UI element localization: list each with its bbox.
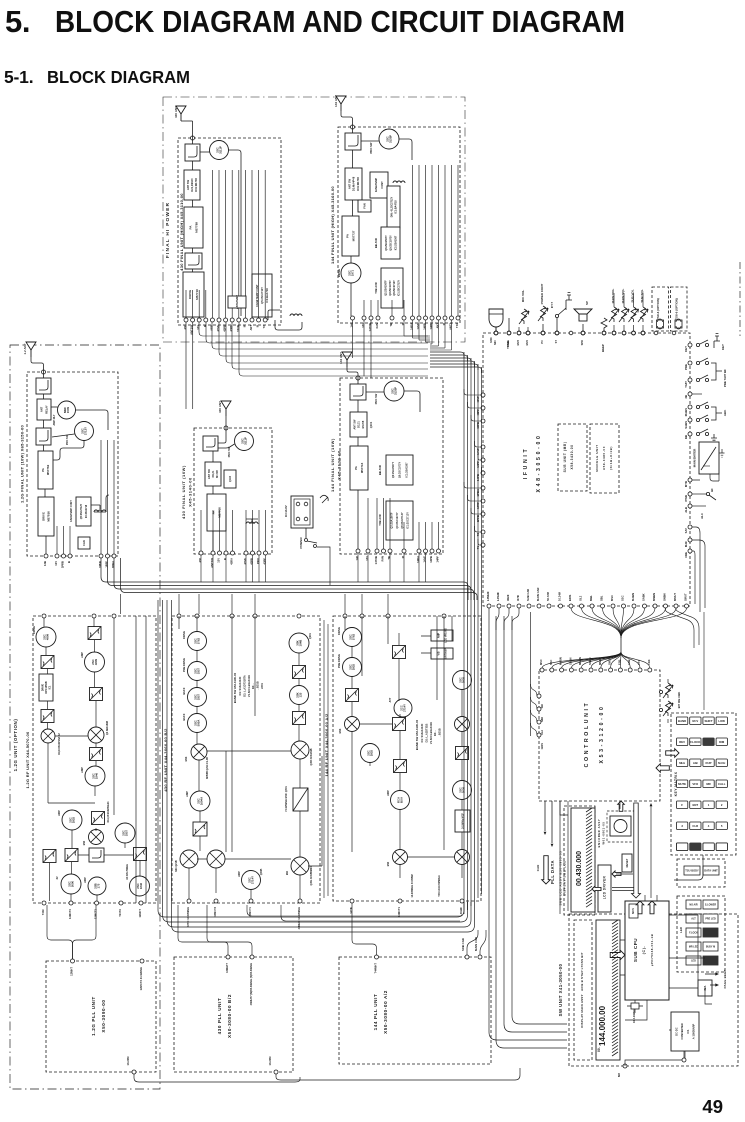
arrow BEEP <box>715 983 719 986</box>
svg-text:MAIN VOL: MAIN VOL <box>611 289 615 304</box>
mixer 430rf b1 <box>180 850 198 868</box>
wires finals high terminals down <box>199 322 428 376</box>
module 1.2G FINAL UNIT 10W X65-3150-00 <box>27 372 118 556</box>
amp 2SC5090 Q1B <box>61 874 81 894</box>
terminals 144 RF top <box>343 614 446 618</box>
svg-text:14PF: 14PF <box>429 323 433 330</box>
svg-text:P.T.T: P.T.T <box>550 302 554 308</box>
svg-text:2714Y: 2714Y <box>403 704 407 712</box>
svg-text:3111P: 3111P <box>219 146 223 154</box>
terminal MV2 <box>526 331 530 335</box>
svg-text:3357: 3357 <box>197 693 201 700</box>
svg-text:TX2: TX2 <box>455 323 459 328</box>
svg-text:430: 430 <box>198 557 202 562</box>
amp 430rf right 1 <box>289 633 309 653</box>
svg-text:MIX: MIX <box>387 861 390 866</box>
svg-text:43VF: 43VF <box>243 558 247 565</box>
svg-text:43RA: 43RA <box>230 558 234 565</box>
svg-text:144 ANT: 144 ANT <box>339 352 343 364</box>
svg-text:TSU-6 (OPTION): TSU-6 (OPTION) <box>675 298 679 320</box>
pot MAIN SQL <box>619 307 629 322</box>
svg-text:ANT: ANT <box>436 323 440 329</box>
svg-text:Q6:2SA1507Y: Q6:2SA1507Y <box>392 462 395 479</box>
filter BPF 144rf d <box>394 760 407 773</box>
svg-text:Q6:2SA1507Y: Q6:2SA1507Y <box>385 235 388 251</box>
block ANT SW 430 high <box>184 170 200 200</box>
svg-text:MABS: MABS <box>684 408 688 416</box>
wire sp stub <box>582 324 584 331</box>
svg-text:SW UNIT X41-3050-00: SW UNIT X41-3050-00 <box>558 963 563 1016</box>
block DC-DC CONVERTER <box>671 1012 699 1051</box>
vertical bundle left of IF <box>464 352 482 914</box>
bus horizontal 4 lines <box>101 558 460 593</box>
svg-text:CAR: CAR <box>536 864 540 871</box>
svg-text:M1708: M1708 <box>216 470 219 478</box>
terminal SPD <box>581 331 585 335</box>
arrow control to cpu long <box>632 803 641 898</box>
wire fan IF bottom to trunk <box>571 608 687 638</box>
svg-text:DC-DC: DC-DC <box>675 1027 679 1035</box>
terminals IF right edge <box>688 343 692 553</box>
svg-text:Q303 3CK184B: Q303 3CK184B <box>310 748 313 765</box>
labels 1.2G RF bottom <box>41 908 142 919</box>
svg-text:1846: 1846 <box>139 882 143 889</box>
svg-text:MUTE: MUTE <box>678 782 686 786</box>
connector TSU-6 2 <box>675 319 682 329</box>
block PA 144 high <box>342 216 359 256</box>
wire q1 out 144h <box>399 139 412 160</box>
block DRIVE 1.2G <box>38 497 54 536</box>
wire pc stub <box>542 324 544 331</box>
svg-text:43PF: 43PF <box>229 325 233 332</box>
amp 2SB175 Q4 <box>88 877 106 895</box>
svg-text:DATA UNIT: DATA UNIT <box>704 869 718 873</box>
svg-text:AMP: AMP <box>387 790 390 796</box>
svg-text:12MHT: 12MHT <box>70 967 74 976</box>
svg-text:2925: 2925 <box>370 749 374 756</box>
block SUB CPU <box>625 901 669 1000</box>
amp 430rf left 2 <box>188 662 207 681</box>
mixer 144rf b2 <box>455 850 470 865</box>
svg-text:B: B <box>67 561 71 563</box>
mixer 144rf b1 <box>393 850 408 865</box>
svg-text:M57916: M57916 <box>47 511 51 522</box>
block PA 1.2G <box>38 451 53 489</box>
svg-text:Q20B: Q20B <box>260 869 263 876</box>
svg-text:MIX: MIX <box>286 870 289 875</box>
svg-text:SSC: SSC <box>621 595 625 601</box>
svg-text:ATT: ATT <box>389 697 392 702</box>
label CONTROL UNIT <box>584 702 605 767</box>
svg-text:SP: SP <box>585 301 589 305</box>
svg-text:M57788: M57788 <box>195 222 199 233</box>
svg-text:PRE TA8T BF: PRE TA8T BF <box>723 369 727 387</box>
terminals 144 PLL top <box>375 955 483 959</box>
terminal SUB SQL <box>641 331 645 335</box>
svg-text:MV2: MV2 <box>525 339 529 345</box>
svg-text:43MHIF 10.495MHz: 43MHIF 10.495MHz <box>298 906 301 929</box>
wires 430 10w terminal verticals <box>201 510 266 551</box>
coil THJ 1.2G <box>94 510 106 512</box>
module 1.2G PLL UNIT X50-3090-00 <box>46 961 156 1072</box>
arrow into lcd driver <box>612 871 621 877</box>
block TEMP CONT 1.2G <box>76 497 91 526</box>
terminal BEEP <box>602 331 606 335</box>
svg-text:SUB CAR: SUB CAR <box>461 938 465 951</box>
svg-text:430 ANT: 430 ANT <box>218 401 222 413</box>
svg-text:F.LOCK: F.LOCK <box>689 932 698 935</box>
svg-text:14TXB: 14TXB <box>368 323 372 331</box>
wires control bottom to sw unit <box>560 801 568 914</box>
wire EDIS feeder down control left <box>530 612 532 736</box>
svg-text:MR LED: MR LED <box>689 946 698 949</box>
amp 144rf right2 <box>453 781 472 800</box>
svg-text:LOW: LOW <box>718 719 725 723</box>
svg-text:MIC VOL: MIC VOL <box>521 290 525 303</box>
svg-text:→B31B: →B31B <box>256 681 260 690</box>
svg-text:PAGE BEEP: PAGE BEEP <box>723 969 727 988</box>
svg-text:IC1:2SC2713Y: IC1:2SC2713Y <box>407 512 410 529</box>
svg-text:Q102: Q102 <box>229 475 232 482</box>
module DISPLAY MAIN ASSY <box>574 920 592 1060</box>
wire dcdc to M8b <box>683 1051 685 1058</box>
wires bit pots <box>660 679 668 723</box>
svg-text:ALB: ALB <box>684 507 688 513</box>
svg-text:SMUT: SMUT <box>684 593 688 601</box>
svg-text:TONE: TONE <box>506 340 510 347</box>
verticals continuing to SW unit <box>489 608 567 1040</box>
terminals 1.2G PLL top <box>71 959 75 963</box>
arrow keymatrix to control <box>656 764 669 773</box>
amp 2SC4899 Q1 <box>85 652 105 672</box>
svg-text:430 FINAL UNIT (HIGH) X45-311: 430 FINAL UNIT (HIGH) X45-3110-00 <box>179 193 184 271</box>
module 1.2G RF UNIT X44-3070-00 <box>33 616 156 903</box>
module TSU-6 OPTION 2 <box>671 287 688 331</box>
filter BPF 1.2G d <box>90 688 103 701</box>
svg-text:FAN&TEMP CONT: FAN&TEMP CONT <box>70 500 73 522</box>
svg-text:Q2 3EK184B: Q2 3EK184B <box>106 721 109 735</box>
amp drive 2SC4899 Q9 <box>36 627 56 647</box>
amp 2SC1846 Q8 <box>85 766 105 786</box>
svg-text:V/B: V/B <box>437 651 440 655</box>
svg-text:PWR: PWR <box>684 495 688 502</box>
bus risers from final 10w terminals <box>201 553 426 582</box>
wire arrow up to control <box>650 805 652 898</box>
page edge dash-dot mark <box>739 262 741 336</box>
terminal MAIN VOL <box>612 331 616 335</box>
wire lpf to q 430 10w <box>218 444 235 448</box>
wire chain 144h vertical <box>352 150 354 168</box>
antenna 430 high <box>176 106 186 121</box>
mixer 430rf right <box>291 741 309 759</box>
arrow into sub cpu left <box>610 950 625 960</box>
terminal ANT 430 high <box>191 136 195 140</box>
svg-text:BAND SW X53-3190-00: BAND SW X53-3190-00 <box>233 672 237 703</box>
wires 1.2G fin terminal verticals <box>57 440 114 554</box>
amp 430rf left 4 <box>188 714 207 733</box>
block PA 144 10w <box>350 446 368 490</box>
svg-text:Q101: Q101 <box>369 421 373 428</box>
svg-text:144.000.00: 144.000.00 <box>598 1005 607 1046</box>
mixer 430rf main <box>191 744 207 760</box>
block MAIN EMITER <box>699 442 725 474</box>
amp 430rf ifamp <box>190 791 210 811</box>
terminal 430 pll bottom <box>274 1070 278 1074</box>
svg-text:D9,31: D9,31 <box>212 470 215 477</box>
pot SUB SQL <box>638 307 648 322</box>
svg-text:12MCT: 12MCT <box>138 909 142 918</box>
amp 144rf left 1 <box>343 628 362 647</box>
module 430 PLL UNIT X50-3080-00 B-2 <box>174 957 293 1072</box>
filter LPF 1.2G bottom <box>89 848 104 862</box>
speaker SP <box>574 309 592 321</box>
mixer 144rf right <box>455 717 470 732</box>
svg-text:ANT: ANT <box>249 325 253 331</box>
svg-text:MAIN EMITER: MAIN EMITER <box>693 449 697 468</box>
module SW UNIT X41-3050-00 <box>569 914 738 1066</box>
svg-text:ANT&TEMP: ANT&TEMP <box>236 295 239 309</box>
module 430 RF UNIT X44-3060-00 B/2 <box>172 616 320 903</box>
amp 430rf left 3 <box>188 688 207 707</box>
svg-text:430 PLL UNIT: 430 PLL UNIT <box>217 998 222 1035</box>
block FAN 144h <box>358 200 371 212</box>
terminal TONE <box>507 331 511 335</box>
svg-text:D1:MA4P48: D1:MA4P48 <box>352 176 356 191</box>
filter BPF 1.2G b <box>41 710 54 723</box>
block DRIVE 430 high <box>183 272 204 317</box>
labels 430 RF bottom <box>187 906 301 929</box>
svg-text:X2: X2 <box>56 876 59 880</box>
svg-text:DRIVE: DRIVE <box>182 631 186 639</box>
wires 144 10w terminal verticals <box>368 498 439 549</box>
key matrix buttons <box>677 717 728 851</box>
antenna 144 high <box>336 96 346 111</box>
module 144 FINAL UNIT 10W X45-3130-00 <box>340 378 443 554</box>
encoder ENCODER ASSY <box>607 811 634 842</box>
module TSU DATA block <box>677 859 725 887</box>
svg-text:SABS: SABS <box>684 421 688 429</box>
transistor 430 10w <box>235 432 254 451</box>
svg-text:5762: 5762 <box>197 637 201 644</box>
svg-text:X2 245.76MHz: X2 245.76MHz <box>126 863 129 880</box>
svg-text:1.2G UNIT (OPTION): 1.2G UNIT (OPTION) <box>13 719 18 772</box>
svg-text:144 ANT: 144 ANT <box>334 95 338 107</box>
svg-text:43MCT1: 43MCT1 <box>249 906 252 916</box>
svg-text:M058B Q214 C1-3B: M058B Q214 C1-3B <box>206 757 209 779</box>
stubs IF left terminals <box>464 389 482 545</box>
svg-text:10.24M: 10.24M <box>558 591 562 601</box>
svg-text:144 FINAL UNIT (10W): 144 FINAL UNIT (10W) <box>330 438 335 492</box>
svg-text:OL2: OL2 <box>540 729 544 735</box>
svg-text:POWER: POWER <box>299 537 303 549</box>
pot SUB VOL <box>629 307 639 322</box>
svg-text:MIX: MIX <box>184 756 188 761</box>
svg-text:SUB SQL: SUB SQL <box>640 289 644 303</box>
svg-text:I F U N I T: I F U N I T <box>523 449 529 480</box>
wires 430rf internal <box>179 616 322 901</box>
filter BPF 144rf e <box>456 747 469 760</box>
svg-text:M57737: M57737 <box>351 230 355 241</box>
svg-text:BUFF: BUFF <box>182 713 186 720</box>
module CONTROL UNIT X53-3120-00 <box>539 670 660 801</box>
svg-text:ANT SW: ANT SW <box>208 468 211 479</box>
LED small blocks <box>686 900 718 965</box>
svg-text:00.430.000: 00.430.000 <box>576 851 583 886</box>
switch ABC 1 <box>696 402 708 409</box>
amp 430rf bottom <box>242 871 261 890</box>
svg-text:RCA: RCA <box>396 797 400 803</box>
amp 144rf right1 <box>453 671 472 690</box>
svg-text:43VF: 43VF <box>216 325 220 332</box>
wires control to display <box>560 801 620 815</box>
terminal MAIN SQL <box>622 331 626 335</box>
filter BPF 430rf right b <box>293 712 306 725</box>
block LCD VR 144rf b <box>431 648 453 659</box>
svg-text:SBL: SBL <box>600 595 604 601</box>
svg-text:D1: S13A1213F: D1: S13A1213F <box>238 676 242 695</box>
wire ant 144h <box>341 111 353 133</box>
svg-text:DRIVE: DRIVE <box>337 269 341 277</box>
svg-text:5-1.: 5-1. <box>4 67 33 87</box>
wire 3B stub <box>692 393 702 395</box>
label 430 FINAL UNIT (10W) <box>181 465 193 519</box>
module MODULE UNIT X59-3480-00 <box>590 424 619 493</box>
svg-text:50.72M: 50.72M <box>546 591 550 601</box>
svg-text:A/B: A/B <box>693 761 698 765</box>
FINAL HI POWER outer frame <box>163 97 465 342</box>
svg-text:DC13.8V: DC13.8V <box>284 505 288 516</box>
labels 1.2G pll top2 <box>139 966 143 990</box>
svg-text:MIX Q21B: MIX Q21B <box>175 860 178 871</box>
svg-text:3133P: 3133P <box>389 135 393 143</box>
labels control top <box>539 657 651 665</box>
terminal 1.2G pll top2 <box>140 959 144 963</box>
pot MIC VOL <box>519 309 529 324</box>
svg-text:Q9:2SC1973Y: Q9:2SC1973Y <box>396 512 399 529</box>
block TEMP CONT 430 high <box>252 274 272 317</box>
svg-text:IC2:2SA1507: IC2:2SA1507 <box>394 235 397 250</box>
svg-text:1.2G PLL UNIT: 1.2G PLL UNIT <box>91 996 96 1036</box>
block ANT RELAY 1.2G <box>37 399 51 420</box>
label MODULE UNIT <box>595 444 613 471</box>
wires mic vol <box>518 327 520 331</box>
svg-text:5762: 5762 <box>352 633 356 640</box>
svg-text:RX→: RX→ <box>433 729 437 736</box>
wires 430rf drops join bundle <box>247 905 460 921</box>
svg-text:ANTSW: ANTSW <box>210 558 214 568</box>
mixer MIX1 1.2G <box>88 727 104 743</box>
wire trunk <box>620 638 622 652</box>
svg-text:L45HIF: L45HIF <box>496 592 500 601</box>
svg-text:MAIN SQL: MAIN SQL <box>621 289 625 304</box>
wires 430h down to 430 10w <box>186 322 193 409</box>
svg-text:1PRB: 1PRB <box>61 561 65 568</box>
svg-text:ANT SW: ANT SW <box>353 419 356 430</box>
terminal ANT 1.2G <box>42 370 46 374</box>
svg-text:SHIFT: SHIFT <box>704 719 712 723</box>
label encoder <box>597 819 606 848</box>
svg-text:TB: TB <box>389 323 393 327</box>
svg-text:3357: 3357 <box>125 829 129 836</box>
svg-text:14RA: 14RA <box>410 323 414 330</box>
svg-text:D3,31: D3,31 <box>358 421 361 428</box>
terminals IF bottom edge <box>487 604 689 608</box>
svg-text:BLOCK DIAGRAM AND CIRCUIT DIAG: BLOCK DIAGRAM AND CIRCUIT DIAGRAM <box>55 4 625 39</box>
svg-text:1PFF: 1PFF <box>105 561 109 568</box>
svg-text:CRE: CRE <box>684 552 688 558</box>
bundle bottom bends left <box>158 600 475 932</box>
block FAN 1.2G <box>78 537 90 549</box>
svg-text:T48.1F/16.595MHz: T48.1F/16.595MHz <box>438 875 441 897</box>
svg-text:1.2G FINAL UNIT (10W) X65-3150: 1.2G FINAL UNIT (10W) X65-3150-00 <box>20 424 25 503</box>
wire q out 144 10w <box>404 391 420 412</box>
mixer 430rf bc <box>291 857 309 875</box>
crystal X1 <box>627 1003 643 1009</box>
amp 144rf att <box>394 699 412 717</box>
arrow TONE <box>715 972 719 975</box>
svg-text:POWER CONT: POWER CONT <box>540 284 544 305</box>
svg-text:SPD: SPD <box>580 340 584 345</box>
block BAND SW list 430rf <box>233 672 264 703</box>
filter LPF2 1.2G <box>36 428 51 445</box>
svg-text:I27IF: I27IF <box>516 595 520 601</box>
wire sw q out <box>52 434 75 437</box>
svg-text:M57713: M57713 <box>360 462 364 473</box>
module LED block <box>677 896 725 972</box>
svg-text:X 4 8 - 3 0 5 0 - 0 0: X 4 8 - 3 0 5 0 - 0 0 <box>536 435 542 492</box>
label 1.2G PLL UNIT <box>91 996 106 1036</box>
svg-text:Q30L 3CK5BM23: Q30L 3CK5BM23 <box>310 866 313 886</box>
svg-text:12B: 12B <box>43 561 47 566</box>
svg-text:F.LOCK: F.LOCK <box>690 740 700 744</box>
amp 2SC2925 Q11 <box>62 810 82 830</box>
svg-text:49: 49 <box>702 1096 723 1117</box>
module 430 FINAL UNIT HIGH X45-3110-00 <box>178 138 281 325</box>
amp 144rf rcabua <box>391 791 410 810</box>
pot BIT 1 <box>663 683 673 698</box>
wires 144rf internal <box>345 616 462 878</box>
terminal M8 bottom <box>623 1064 627 1068</box>
block FAN TEMP CONT 144h <box>370 172 388 198</box>
svg-text:TSU BODY: TSU BODY <box>685 869 699 873</box>
block ANT TERM 430h <box>228 295 246 309</box>
module KEY MATRIX <box>671 713 736 855</box>
svg-text:74.925MHz MCF Q301: 74.925MHz MCF Q301 <box>285 786 288 812</box>
svg-text:L3MHIF: L3MHIF <box>486 591 490 601</box>
svg-text:3B: 3B <box>684 395 688 399</box>
svg-text:144 PLL UNIT: 144 PLL UNIT <box>373 994 378 1031</box>
block DRIVE DPC1659B <box>39 674 53 701</box>
wire lpf to q1 144h <box>361 140 379 142</box>
svg-text:AMP: AMP <box>437 632 440 638</box>
svg-text:14RA: 14RA <box>416 556 420 563</box>
svg-text:X 5 3 - 3 1 2 0 - 0 0: X 5 3 - 3 1 2 0 - 0 0 <box>599 706 605 763</box>
wire mic stem <box>495 327 497 331</box>
antenna 430 10w <box>221 401 231 416</box>
svg-text:PRE DRIVE: PRE DRIVE <box>182 658 186 672</box>
labels IF left edge <box>476 396 480 550</box>
svg-text:W01-0801-05: W01-0801-05 <box>602 822 606 845</box>
svg-text:IC1:2SC2713Y: IC1:2SC2713Y <box>398 280 401 296</box>
svg-text:BUSY M: BUSY M <box>706 946 715 949</box>
svg-text:M1708: M1708 <box>362 420 365 428</box>
wire ptt stub <box>556 318 558 331</box>
connector DC13.8V POWER <box>291 496 313 528</box>
svg-text:M.CH: M.CH <box>718 761 725 765</box>
svg-text:PRE LED: PRE LED <box>705 918 716 921</box>
svg-text:IC1: IC1 <box>49 685 52 689</box>
wire ant 1.2G <box>31 357 44 378</box>
